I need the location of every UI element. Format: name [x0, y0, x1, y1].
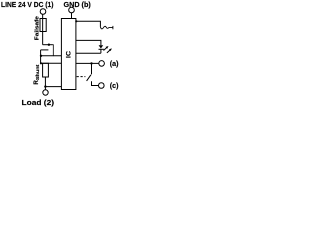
terminal c circle: [99, 83, 105, 89]
node drain junction dot: [48, 44, 50, 46]
dashed actuator link IC to switch: [77, 76, 86, 78]
node switch tap dot: [90, 62, 92, 64]
wire LED return to IC: [76, 52, 101, 54]
node source junction dot: [40, 55, 42, 57]
squiggle end tick: [112, 26, 114, 29]
wire LED cathode stub: [100, 49, 102, 53]
terminal 2 Load: [43, 90, 48, 95]
terminal 1 LINE: [40, 9, 46, 15]
wire LINE terminal to fuse: [42, 14, 44, 44]
svg-text:RShunt: RShunt: [33, 64, 40, 85]
wire switch upper: [91, 63, 93, 74]
transistor Q1 drain lead: [43, 44, 53, 46]
svg-text:Failsafe: Failsafe: [35, 16, 41, 40]
LED D1 cathode bar: [99, 48, 104, 50]
node IC squiggle dot: [75, 20, 77, 22]
LED light arrow 1: [104, 48, 107, 51]
node load junction dot: [44, 85, 46, 87]
transistor Q1 channel: [52, 44, 54, 56]
wire load sense to IC: [45, 86, 61, 88]
svg-text:IC: IC: [66, 51, 73, 58]
svg-text:GND (b): GND (b): [64, 2, 91, 9]
IC box U1: [61, 19, 76, 90]
fuse F1 failsafe: [40, 19, 46, 32]
switch S1 blade: [87, 75, 91, 81]
wire IC to terminal a: [76, 62, 99, 64]
LED D1 triangle: [99, 45, 104, 48]
svg-text:Load (2): Load (2): [22, 98, 55, 107]
node shunt top dot: [40, 62, 42, 64]
wire switch lower to terminal c: [92, 81, 99, 85]
resistor R shunt: [43, 63, 49, 77]
wire GND terminal to IC: [71, 13, 73, 19]
wire IC to squiggle output: [76, 21, 100, 27]
svg-text:(c): (c): [110, 83, 119, 90]
transistor Q1 gate lead: [41, 49, 49, 51]
svg-text:LINE 24 V DC (1): LINE 24 V DC (1): [1, 2, 54, 9]
terminal a circle: [99, 61, 105, 67]
wire shunt to load terminal: [44, 77, 46, 90]
terminal GND: [69, 7, 75, 13]
svg-text:(a): (a): [110, 61, 119, 68]
transistor Q1 source rail to IC: [41, 55, 62, 57]
wire IC to LED anode: [76, 40, 101, 45]
LED light arrow 2: [107, 50, 110, 53]
wire gate-source vertical: [40, 50, 42, 63]
flexible lead squiggle: [100, 26, 112, 29]
wire shunt top to IC: [41, 62, 62, 64]
